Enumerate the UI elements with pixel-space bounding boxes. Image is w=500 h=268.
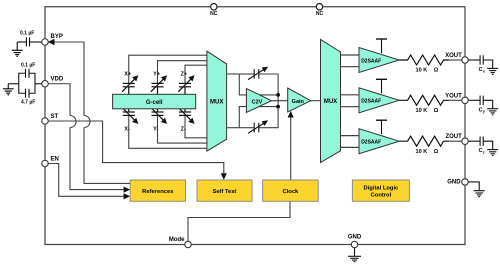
svg-text:NC: NC <box>210 11 218 17</box>
ground at Cy <box>487 109 498 115</box>
pin EN <box>42 160 49 167</box>
G-cell bottom bus Y <box>158 115 207 143</box>
arrowhead ST into Self Test <box>221 173 227 180</box>
wire bottom to C2V input (continues under triangle to feedback node) <box>239 107 278 128</box>
ground at GND right <box>474 191 485 197</box>
svg-text:C2V: C2V <box>252 99 263 105</box>
op-amp Y D2SAAF <box>359 88 399 113</box>
svg-text:References: References <box>142 189 173 195</box>
wire MUX1 top output <box>227 73 240 75</box>
svg-text:ST: ST <box>51 114 59 120</box>
pin YOUT <box>462 97 469 104</box>
ground at Cx <box>487 68 498 74</box>
hold cap T symbol amp Z <box>381 120 383 134</box>
svg-text:D2SAAF: D2SAAF <box>361 140 381 146</box>
pin ZOUT <box>462 138 469 145</box>
wire ST net <box>45 121 224 176</box>
variable capacitor Z- <box>178 107 192 121</box>
capacitor 0.1uF at VDD <box>19 69 35 84</box>
svg-text:EN: EN <box>51 157 59 163</box>
pin XOUT <box>462 57 469 64</box>
svg-text:YOUT: YOUT <box>445 93 462 99</box>
op-amp X D2SAAF <box>359 48 399 73</box>
G-cell top bus X <box>129 55 207 83</box>
wire bottom feedback branch <box>239 127 254 129</box>
svg-text:10 K: 10 K <box>416 108 428 114</box>
op-amp MUX2 <box>321 39 341 162</box>
svg-text:Mode: Mode <box>169 237 185 243</box>
pin GND right <box>462 179 469 186</box>
pin GND bottom <box>351 241 358 248</box>
block Clock <box>263 180 319 201</box>
G-cell block <box>113 94 196 109</box>
capacitor Cz external <box>468 137 493 150</box>
svg-text:z: z <box>483 150 485 155</box>
svg-text:Self Test: Self Test <box>213 189 237 195</box>
arrowhead into BYP pin <box>48 39 55 45</box>
svg-text:10 K: 10 K <box>416 149 428 155</box>
ground at VDD caps <box>3 89 14 95</box>
wire MUX2 to amp X pair <box>341 54 360 56</box>
resistor RX 10K <box>399 55 449 65</box>
wire Gain to MUX2 <box>311 100 321 102</box>
wire top to C2V input (continues under triangle to feedback node) <box>239 74 278 95</box>
svg-text:Ω: Ω <box>434 68 439 74</box>
svg-text:Ω: Ω <box>434 108 439 114</box>
svg-text:XOUT: XOUT <box>445 53 462 59</box>
wire VDD net <box>45 84 71 116</box>
variable capacitor C2V bottom feedback <box>248 123 265 134</box>
svg-text:NC: NC <box>316 11 324 17</box>
arrowhead EN into References <box>124 193 131 199</box>
pin Mode <box>185 241 192 248</box>
svg-text:GND: GND <box>447 179 461 185</box>
variable capacitor X- <box>122 107 136 121</box>
pin NC 2 <box>316 4 322 10</box>
variable capacitor Y- <box>151 107 165 121</box>
svg-text:MUX: MUX <box>210 100 223 106</box>
svg-text:X+: X+ <box>124 72 131 78</box>
op-amp Gain <box>288 88 311 112</box>
svg-text:G-cell: G-cell <box>146 100 163 106</box>
node C2V feedback bottom junction <box>276 105 280 109</box>
wire GND right pin <box>468 182 479 190</box>
pin ST <box>42 118 49 125</box>
wire MUX2 to amp Z pair <box>341 135 360 137</box>
svg-text:0.1 µF: 0.1 µF <box>21 63 35 69</box>
svg-text:ZOUT: ZOUT <box>445 134 462 140</box>
G-cell top bus Z <box>185 65 207 83</box>
variable capacitor X+ <box>122 78 136 94</box>
svg-text:Z-: Z- <box>181 127 186 133</box>
G-cell bottom bus X <box>129 115 207 148</box>
svg-text:Digital Logic: Digital Logic <box>364 185 400 191</box>
svg-text:Y-: Y- <box>153 127 158 133</box>
svg-text:BYP: BYP <box>51 34 63 40</box>
G-cell bottom bus Z <box>185 115 207 137</box>
pin BYP <box>42 39 49 46</box>
svg-text:4.7 µF: 4.7 µF <box>21 100 35 106</box>
block Digital Logic Control <box>352 180 409 201</box>
svg-text:Gain: Gain <box>292 99 305 105</box>
capacitor Cy external <box>468 96 493 109</box>
wire EN net <box>45 164 127 197</box>
variable capacitor Z+ <box>178 78 192 94</box>
block References <box>130 180 185 201</box>
node C2V feedback top junction <box>276 93 280 97</box>
hold cap T symbol amp X <box>381 39 383 53</box>
pin VDD <box>42 81 49 88</box>
svg-text:y: y <box>483 109 486 114</box>
resistor RY 10K <box>399 95 449 105</box>
G-cell top bus Y <box>158 61 207 84</box>
variable capacitor C2V top feedback <box>248 69 265 80</box>
block Self Test <box>197 180 252 201</box>
wire self-test into Gain <box>290 117 292 180</box>
svg-text:Z+: Z+ <box>181 72 187 78</box>
arrowhead VDD into References <box>124 187 131 193</box>
wire top feedback branch <box>239 73 254 75</box>
capacitor 0.1uF at BYP <box>17 37 44 50</box>
svg-text:Y+: Y+ <box>153 72 160 78</box>
op-amp MUX1 <box>207 51 227 151</box>
ground at BYP cap <box>12 50 23 56</box>
pin NC 1 <box>211 4 217 10</box>
variable capacitor Y+ <box>151 78 165 94</box>
capacitor Cx external <box>468 55 493 68</box>
wire BYP net <box>48 42 84 116</box>
op-amp C2V <box>246 89 271 113</box>
ground at Cz <box>487 150 498 156</box>
chip outline <box>45 7 465 245</box>
svg-text:GND: GND <box>348 234 362 240</box>
svg-text:Clock: Clock <box>283 189 300 195</box>
hold cap T symbol amp Y <box>381 79 383 93</box>
svg-text:0.1 µF: 0.1 µF <box>20 31 34 37</box>
wire C2V to Gain <box>272 100 288 102</box>
svg-text:MUX: MUX <box>324 99 337 105</box>
svg-text:D2SAAF: D2SAAF <box>361 58 381 64</box>
svg-text:Control: Control <box>371 193 392 199</box>
wire C2V output bus vertical <box>277 95 279 107</box>
wire Mode net to Clock <box>188 201 290 241</box>
op-amp Z D2SAAF <box>359 129 399 154</box>
svg-text:10 K: 10 K <box>416 68 428 74</box>
ground at GND bottom <box>348 248 361 262</box>
svg-text:D2SAAF: D2SAAF <box>361 99 381 105</box>
svg-text:VDD: VDD <box>51 77 64 83</box>
svg-text:Ω: Ω <box>434 149 439 155</box>
arrowhead into Gain <box>288 111 294 118</box>
capacitor 4.7uF at VDD <box>8 84 41 98</box>
wire MUX2 to amp Y pair <box>341 94 360 96</box>
svg-text:x: x <box>483 68 486 73</box>
wire MUX1 bottom output <box>227 127 240 129</box>
svg-text:X-: X- <box>124 127 130 133</box>
resistor RZ 10K <box>399 136 449 146</box>
